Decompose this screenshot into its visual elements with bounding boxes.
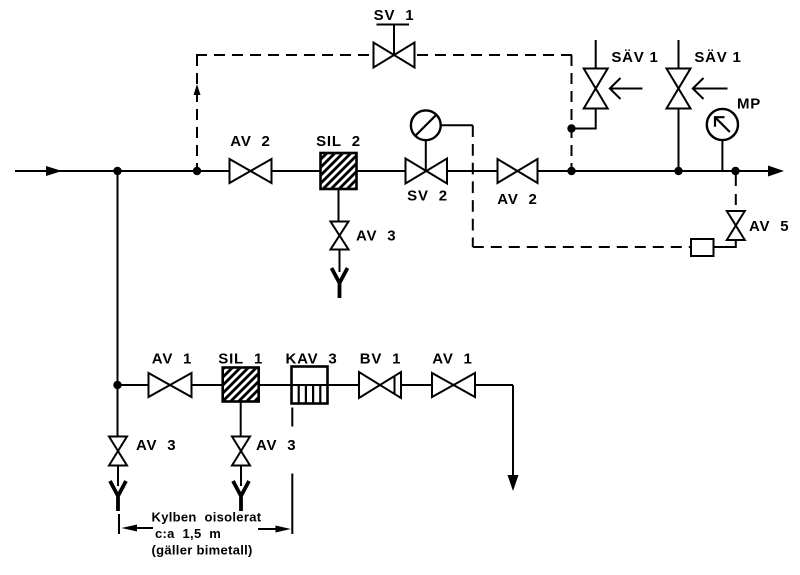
outlet arrow down bbox=[508, 475, 519, 491]
junction dot at x=571.5 main line bbox=[567, 167, 575, 175]
wire: gauge to sensing line (solid) bbox=[441, 124, 473, 126]
svg-text:SIL 2: SIL 2 bbox=[316, 133, 361, 150]
wire: dashed sensing line drop x=472.8 bbox=[472, 125, 474, 247]
wire: dashed control line drop at x=571.5 bbox=[571, 55, 573, 171]
svg-text:AV 2: AV 2 bbox=[497, 191, 537, 208]
gauge bulb above SV 2 bbox=[411, 110, 441, 140]
drain Y symbol (under SIL 2) bbox=[332, 268, 348, 298]
svg-text:AV 1: AV 1 bbox=[152, 351, 192, 368]
wire: SÄV 1 second top stem bbox=[678, 40, 680, 69]
svg-text:Kylben oisolerat: Kylben oisolerat bbox=[152, 510, 262, 525]
drain Y symbol (under SIL 1) bbox=[233, 481, 249, 511]
dimension extension line right bbox=[291, 474, 293, 535]
wire: stem gauge to SV 2 bbox=[425, 140, 427, 171]
wire: vertical drop to lower branch bbox=[117, 171, 119, 437]
wire: SÄV 1 first bottom stem bbox=[595, 109, 597, 130]
valve AV 1 (first, lower branch) bbox=[149, 373, 192, 397]
svg-text:AV 1: AV 1 bbox=[432, 351, 472, 368]
strainer SIL 2 bbox=[321, 153, 357, 189]
wire: dashed sensing line run y=247 bbox=[473, 246, 691, 248]
junction dot on dashed drop (SÄV tap) bbox=[567, 124, 575, 132]
valve AV 3 (under SIL 2) bbox=[331, 222, 349, 250]
wire: drain stem below SIL 1 bbox=[240, 402, 242, 438]
junction dot at x=678.5 main line bbox=[674, 167, 682, 175]
flow arrow on main line (left) bbox=[46, 166, 62, 176]
valve SV 1 (on dashed line) bbox=[374, 25, 415, 68]
pressure gauge MP bbox=[707, 109, 738, 171]
wire: dashed control line riser at x=197 bbox=[196, 55, 198, 171]
air vent KAV 3 bbox=[292, 367, 328, 404]
junction dot at x=735.5 main line bbox=[731, 167, 739, 175]
svg-text:(gäller bimetall): (gäller bimetall) bbox=[152, 543, 253, 558]
safety valve SÄV 1 (second) bbox=[667, 69, 691, 109]
junction dot at x=197 main line bbox=[193, 167, 201, 175]
strainer SIL 1 bbox=[223, 368, 259, 402]
wire: SÄV 1 first top stem bbox=[595, 40, 597, 69]
wire: dashed stub below main line to AV 5 bbox=[735, 175, 737, 211]
svg-text:AV 2: AV 2 bbox=[230, 133, 270, 150]
svg-text:AV 3: AV 3 bbox=[356, 228, 396, 245]
wire: lower branch outlet drop bbox=[512, 385, 514, 477]
svg-text:AV 3: AV 3 bbox=[256, 437, 296, 454]
wire: stem to drain Y left bbox=[117, 466, 119, 487]
wire: stem to drain Y under SIL 1 bbox=[240, 466, 242, 487]
wire: main supply line bbox=[15, 170, 768, 172]
wire: horizontal link dot to SÄV 1 first bbox=[572, 128, 596, 130]
actuation arrow into SÄV 1 first bbox=[610, 78, 643, 99]
dimension arrow left bbox=[122, 525, 154, 532]
wire: dashed control line top run y=55 (left half) bbox=[196, 54, 384, 56]
valve AV 2 (first, on main line) bbox=[230, 159, 272, 183]
actuation arrow into SÄV 1 second bbox=[693, 78, 728, 99]
valve AV 2 (second, on main line) bbox=[498, 159, 538, 183]
wire: stem to drain Y under SIL 2 bbox=[339, 250, 341, 273]
valve SV 2 (on main line) bbox=[406, 159, 448, 184]
small up arrow on dashed riser bbox=[194, 84, 201, 95]
safety valve SÄV 1 (first) bbox=[584, 69, 608, 109]
wire: lower branch line bbox=[118, 384, 514, 386]
valve AV 5 bbox=[727, 211, 745, 240]
wire: AV 5 bottom stem bbox=[735, 240, 737, 248]
valve AV 1 (second, lower branch) bbox=[432, 373, 475, 397]
valve AV 3 (under SIL 1) bbox=[232, 437, 250, 466]
junction dot at x=117 main line bbox=[113, 167, 121, 175]
svg-text:SV 1: SV 1 bbox=[374, 7, 415, 24]
dimension arrow right bbox=[258, 526, 291, 533]
wire: SÄV 1 second bottom stem to main line bbox=[678, 109, 680, 172]
svg-text:AV 3: AV 3 bbox=[136, 437, 176, 454]
svg-text:SV 2: SV 2 bbox=[407, 188, 448, 205]
svg-text:BV 1: BV 1 bbox=[360, 351, 402, 368]
dimension extension line left bbox=[118, 514, 120, 534]
svg-text:KAV 3: KAV 3 bbox=[285, 351, 337, 368]
flow arrow at main line right end bbox=[768, 166, 784, 177]
svg-text:SÄV 1: SÄV 1 bbox=[694, 49, 741, 66]
svg-text:SIL 1: SIL 1 bbox=[218, 351, 263, 368]
wire: link AV 5 to sensing box bbox=[714, 246, 736, 248]
valve AV 3 (left drain) bbox=[109, 437, 127, 466]
wire: dashed control line top run y=55 (right half) bbox=[384, 54, 572, 56]
junction dot lower branch bbox=[113, 381, 121, 389]
svg-text:MP: MP bbox=[737, 96, 761, 113]
svg-text:SÄV 1: SÄV 1 bbox=[611, 49, 658, 66]
dimension extension line right (upper dash) bbox=[291, 408, 293, 427]
svg-text:c:a 1,5 m: c:a 1,5 m bbox=[155, 526, 221, 541]
svg-text:AV 5: AV 5 bbox=[749, 218, 789, 235]
check valve BV 1 bbox=[359, 372, 401, 398]
wire: drain stem below SIL 2 bbox=[338, 189, 340, 222]
drain Y symbol (left) bbox=[110, 481, 126, 511]
sensing element box (square) bbox=[691, 239, 714, 256]
